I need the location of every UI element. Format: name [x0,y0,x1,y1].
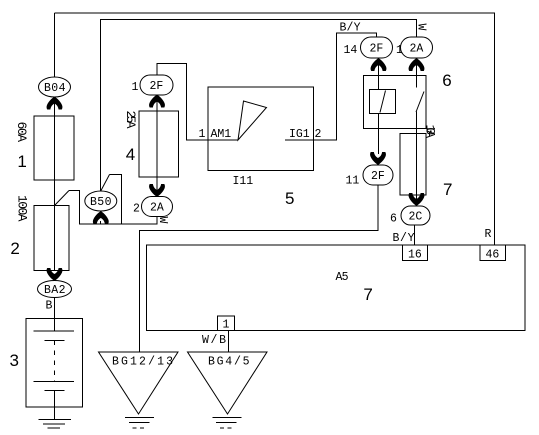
svg-text:6: 6 [442,71,451,90]
svg-text:1: 1 [17,152,26,171]
svg-text:B50: B50 [90,196,112,209]
svg-text:2F: 2F [370,43,384,56]
svg-text:B/Y: B/Y [340,22,361,35]
svg-text:3: 3 [10,351,19,370]
svg-text:AM1: AM1 [211,128,232,141]
svg-text:100A: 100A [15,195,30,222]
svg-text:BA2: BA2 [44,284,66,297]
svg-text:2C: 2C [409,211,423,224]
svg-text:1: 1 [396,44,403,57]
svg-text:1: 1 [199,128,206,141]
svg-text:46: 46 [486,249,500,262]
svg-text:7: 7 [363,285,372,304]
svg-text:14: 14 [344,44,358,57]
svg-text:1: 1 [132,81,139,94]
svg-text:6: 6 [390,213,397,226]
svg-text:7: 7 [443,180,452,199]
svg-text:2: 2 [133,203,140,216]
svg-text:W: W [156,217,169,224]
svg-text:1: 1 [223,319,230,332]
svg-text:11: 11 [346,175,360,188]
svg-text:I11: I11 [233,175,254,188]
svg-text:2F: 2F [150,80,164,93]
svg-text:R: R [485,228,492,241]
svg-text:B/Y: B/Y [393,232,415,245]
svg-text:A5: A5 [336,271,349,284]
svg-text:W: W [415,24,428,31]
svg-text:B04: B04 [44,82,66,95]
svg-text:IG1: IG1 [289,128,310,141]
svg-text:2A: 2A [150,202,164,215]
svg-text:10A: 10A [423,125,438,139]
svg-text:BG12/13: BG12/13 [112,356,173,369]
svg-text:25A: 25A [123,111,138,129]
svg-text:60A: 60A [14,122,29,143]
svg-text:2: 2 [315,128,322,141]
svg-text:W/B: W/B [202,334,226,347]
svg-text:2F: 2F [371,170,385,183]
svg-text:2A: 2A [410,43,424,56]
svg-text:5: 5 [285,189,294,208]
svg-text:4: 4 [126,145,135,164]
svg-text:16: 16 [408,249,422,262]
svg-text:2: 2 [10,239,19,258]
svg-text:B: B [46,300,53,313]
svg-text:BG4/5: BG4/5 [208,356,250,369]
